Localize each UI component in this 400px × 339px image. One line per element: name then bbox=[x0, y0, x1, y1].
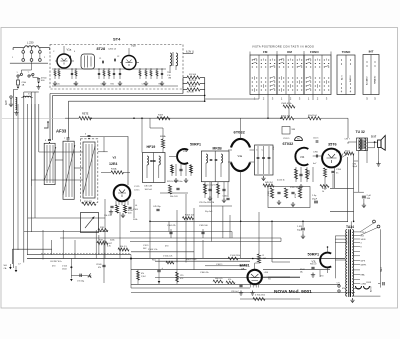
svg-text:8: 8 bbox=[361, 247, 362, 249]
contact dot bbox=[265, 59, 266, 60]
tube pin bbox=[255, 283, 257, 287]
terminal sel 3 bbox=[39, 59, 42, 62]
contact dot bbox=[297, 59, 298, 60]
resistor bbox=[166, 261, 174, 264]
contact dot bbox=[270, 66, 271, 67]
resistor R103 bbox=[183, 217, 194, 220]
svg-text:2 µF: 2 µF bbox=[367, 195, 372, 197]
junction bbox=[88, 138, 89, 139]
bus wire bottom main bbox=[27, 258, 345, 260]
wire vertical bbox=[34, 92, 36, 180]
contact dot bbox=[297, 81, 298, 82]
capacitor C2 bbox=[37, 79, 40, 80]
svg-text:R2 104: R2 104 bbox=[187, 91, 195, 93]
transformer T1 discriminator bbox=[81, 54, 95, 69]
wire bbox=[341, 154, 343, 159]
contact stroke bbox=[254, 59, 256, 61]
contact dot bbox=[261, 85, 262, 86]
wire bbox=[228, 161, 232, 163]
TA34 tap wire bbox=[353, 279, 360, 281]
wire bbox=[327, 267, 329, 273]
wire stub bbox=[12, 48, 14, 50]
wire vertical left of TA34 bbox=[334, 236, 336, 278]
bus wire 254 bbox=[27, 254, 131, 256]
wire bbox=[250, 161, 255, 163]
bus wire 238 bbox=[60, 237, 281, 239]
svg-text:C55 25n R33 1M: C55 25n R33 1M bbox=[199, 202, 214, 204]
svg-text:1 507: 1 507 bbox=[107, 243, 113, 245]
tick bbox=[276, 51, 278, 55]
svg-text:C6 2N7 47n: C6 2N7 47n bbox=[50, 261, 62, 263]
resistor R49 bbox=[320, 185, 329, 188]
contact dot bbox=[274, 81, 275, 82]
contact dot bbox=[350, 63, 351, 64]
contact dot bbox=[328, 81, 329, 82]
wire vertical bbox=[70, 259, 72, 279]
svg-text:R3 106: R3 106 bbox=[189, 86, 197, 88]
contact dot bbox=[301, 63, 302, 64]
contact dot bbox=[306, 66, 307, 67]
svg-text:R1 104: R1 104 bbox=[189, 74, 197, 76]
wire table drop bbox=[312, 95, 314, 101]
contact bbox=[306, 84, 310, 86]
svg-text:V4a: V4a bbox=[238, 154, 243, 158]
junction bbox=[271, 221, 273, 223]
bus wire AF bbox=[134, 117, 281, 119]
svg-text:WB: WB bbox=[292, 129, 296, 131]
wire pin bbox=[71, 60, 74, 62]
svg-text:C1: C1 bbox=[99, 58, 101, 60]
wire bbox=[31, 53, 33, 58]
junction bbox=[149, 221, 151, 223]
tube V1a electrodes bbox=[61, 58, 68, 65]
wire vertical bbox=[211, 182, 213, 242]
ground bbox=[208, 196, 212, 201]
wire bbox=[150, 69, 152, 79]
junction bbox=[103, 68, 104, 69]
contact dot bbox=[350, 87, 351, 88]
table column line bbox=[303, 55, 305, 95]
resistor R24 bbox=[169, 185, 172, 194]
wire bbox=[32, 76, 34, 78]
junction bbox=[374, 141, 376, 143]
HF19 capacitor bbox=[153, 160, 156, 161]
box power filter bbox=[268, 187, 310, 208]
wire bbox=[240, 134, 242, 139]
wire bbox=[250, 149, 255, 151]
svg-text:100 1n8: 100 1n8 bbox=[145, 189, 153, 191]
svg-text:C36 C38: C36 C38 bbox=[144, 186, 153, 188]
svg-text:INT: INT bbox=[369, 50, 374, 54]
contact dot bbox=[328, 63, 329, 64]
tube V5 electrodes bbox=[327, 154, 337, 163]
wire bbox=[240, 171, 242, 177]
wire bbox=[24, 91, 39, 93]
ground bbox=[301, 234, 305, 239]
junction bbox=[353, 221, 355, 223]
contact dot bbox=[274, 59, 275, 60]
resistor R2 bbox=[187, 82, 200, 85]
ground bbox=[291, 202, 295, 207]
svg-text:OM: OM bbox=[168, 78, 172, 80]
svg-text:C162 1: C162 1 bbox=[216, 264, 223, 266]
tube V2 12EA bbox=[114, 185, 131, 202]
svg-text:6,3V: 6,3V bbox=[186, 51, 191, 54]
contact dot bbox=[270, 77, 271, 78]
wire bbox=[24, 231, 108, 233]
junction bbox=[75, 68, 76, 69]
switch lever bbox=[19, 74, 21, 77]
HF19 divider bbox=[153, 153, 155, 183]
contact dot bbox=[297, 89, 298, 90]
svg-text:V1b: V1b bbox=[131, 44, 136, 48]
svg-text:R10A: R10A bbox=[111, 167, 117, 170]
ground bbox=[299, 184, 303, 189]
junction bbox=[204, 100, 206, 102]
ground bbox=[74, 81, 78, 86]
padder arrow bbox=[85, 217, 94, 228]
IF transformer MF2B bbox=[201, 151, 229, 182]
svg-text:1.5µ: 1.5µ bbox=[312, 195, 317, 197]
svg-text:C1A: C1A bbox=[22, 81, 27, 84]
ground bbox=[118, 81, 122, 86]
tube pin bbox=[124, 201, 126, 206]
svg-text:12E4: 12E4 bbox=[109, 162, 117, 166]
junction bbox=[49, 142, 50, 143]
wire bbox=[272, 261, 290, 263]
svg-text:V2: V2 bbox=[113, 156, 117, 160]
capacitor C1509 bbox=[102, 265, 105, 266]
terminal bbox=[338, 285, 340, 287]
svg-text:RETE: RETE bbox=[82, 113, 89, 116]
wire bbox=[200, 83, 205, 85]
wire bbox=[190, 164, 192, 176]
contact dot bbox=[310, 63, 311, 64]
wire bbox=[137, 270, 139, 285]
wire bbox=[294, 117, 308, 119]
junction bbox=[161, 68, 162, 69]
resistor R47 bbox=[284, 188, 287, 198]
contact dot bbox=[270, 59, 271, 60]
IF transformer HF19 bbox=[143, 153, 166, 183]
wire bbox=[374, 142, 376, 148]
wire bus inside box bbox=[52, 85, 178, 87]
trimmer capacitor bbox=[88, 135, 91, 136]
TA34 tap wire left bbox=[335, 242, 347, 244]
contact dot bbox=[328, 89, 329, 90]
wire bbox=[324, 177, 326, 190]
bus wire 2 bbox=[53, 94, 205, 96]
terminal output 2 bbox=[377, 225, 380, 228]
svg-text:C20: C20 bbox=[57, 84, 60, 86]
capacitor bbox=[268, 157, 271, 158]
resistor R43 bbox=[324, 168, 327, 177]
capacitor C70 bbox=[362, 196, 366, 198]
contact dot bbox=[310, 66, 311, 67]
junction bbox=[252, 258, 254, 260]
contact dot bbox=[261, 89, 262, 90]
tuning arrow bbox=[44, 147, 56, 181]
wire vertical ladder bbox=[34, 104, 36, 218]
svg-text:763: 763 bbox=[361, 235, 364, 237]
contact dot bbox=[270, 89, 271, 90]
switch box INT bbox=[363, 55, 379, 95]
ground speaker bbox=[376, 162, 380, 167]
shield coil box L4 bbox=[81, 139, 98, 203]
winding bbox=[87, 56, 89, 68]
TA34 tap wire bbox=[353, 287, 360, 289]
box padder bbox=[81, 213, 99, 233]
wire vertical bbox=[202, 240, 204, 258]
wire bbox=[321, 117, 348, 119]
contact dot bbox=[374, 65, 375, 66]
svg-text:AF33: AF33 bbox=[56, 129, 67, 134]
resistor R12 bbox=[124, 205, 127, 213]
wire bbox=[65, 117, 79, 119]
junction bbox=[113, 68, 114, 69]
wire bbox=[146, 165, 148, 178]
svg-text:C55 4: C55 4 bbox=[361, 232, 366, 234]
wire bbox=[171, 164, 173, 176]
resistor R14 bbox=[82, 202, 96, 205]
svg-text:TA34: TA34 bbox=[346, 225, 354, 229]
bus wire 277 bbox=[155, 277, 300, 279]
svg-text:C2: C2 bbox=[117, 56, 119, 58]
svg-text:470k: 470k bbox=[295, 194, 297, 198]
contact dot bbox=[283, 89, 284, 90]
bus wire 288 bbox=[131, 287, 250, 289]
svg-text:C1509: C1509 bbox=[96, 264, 102, 266]
wire bbox=[20, 70, 22, 73]
svg-text:COM5: COM5 bbox=[361, 284, 366, 286]
contact dot bbox=[252, 81, 253, 82]
wire bbox=[228, 149, 232, 151]
table column line bbox=[312, 55, 314, 95]
svg-text:C26: C26 bbox=[101, 84, 104, 86]
contact bbox=[297, 66, 301, 68]
svg-text:C% 50µ: C% 50µ bbox=[77, 281, 85, 283]
resistor R20A bbox=[161, 139, 164, 148]
switch contact bbox=[20, 73, 22, 75]
tick bbox=[330, 52, 332, 56]
contact dot bbox=[256, 66, 257, 67]
svg-text:56k C43: 56k C43 bbox=[170, 196, 178, 198]
svg-text:C206 14: C206 14 bbox=[108, 49, 117, 51]
svg-text:R23 1k C41 100n: R23 1k C41 100n bbox=[167, 181, 183, 183]
junction bbox=[90, 117, 92, 119]
dashed chassis line low bbox=[41, 252, 131, 254]
contact dot bbox=[288, 59, 289, 60]
resistor R25 bbox=[118, 248, 129, 251]
svg-text:4504 104: 4504 104 bbox=[308, 115, 318, 117]
resistor R22 bbox=[190, 165, 193, 173]
speaker LS bbox=[378, 140, 381, 148]
wire bbox=[204, 182, 206, 198]
connector arrow bbox=[70, 279, 73, 281]
resistor bbox=[226, 281, 235, 284]
wire bbox=[21, 69, 31, 71]
trimmer capacitor bbox=[48, 139, 51, 140]
coil box L2 bbox=[44, 143, 55, 184]
wire bbox=[162, 148, 164, 153]
svg-text:146 B: 146 B bbox=[361, 239, 367, 241]
switch table keyboard bbox=[250, 55, 331, 95]
wire vertical bbox=[271, 221, 273, 262]
coil line bbox=[46, 145, 48, 183]
svg-text:25µF: 25µF bbox=[312, 198, 318, 200]
TA34 tap wire bbox=[353, 283, 360, 285]
junction bbox=[267, 117, 269, 119]
wire bbox=[227, 182, 229, 197]
wire bbox=[263, 146, 265, 174]
wire stub bbox=[49, 48, 51, 50]
capacitor C69 bbox=[331, 171, 334, 172]
svg-text:1,5k2: 1,5k2 bbox=[141, 276, 146, 278]
contact dot bbox=[301, 81, 302, 82]
contact dot bbox=[350, 59, 351, 60]
contact dot bbox=[315, 66, 316, 67]
wire grid feed bbox=[80, 137, 128, 186]
TU32 secondary bbox=[365, 139, 367, 151]
wire bbox=[257, 146, 259, 174]
svg-text:C105 100: C105 100 bbox=[199, 225, 209, 227]
contact dot bbox=[274, 77, 275, 78]
wire vertical bbox=[222, 206, 224, 238]
svg-text:ALTOP: ALTOP bbox=[370, 285, 373, 292]
svg-text:EM81: EM81 bbox=[240, 263, 251, 268]
wire bbox=[108, 69, 110, 79]
contact dot bbox=[256, 81, 257, 82]
wire bbox=[209, 182, 211, 198]
TA34 core line bbox=[348, 229, 350, 297]
coil hatch bbox=[15, 105, 18, 106]
svg-text:R2 105: R2 105 bbox=[189, 80, 197, 82]
svg-text:PU: PU bbox=[297, 138, 300, 140]
wire bbox=[63, 46, 65, 47]
ground bbox=[36, 85, 40, 90]
contact dot bbox=[306, 77, 307, 78]
contact dot bbox=[283, 81, 284, 82]
contact dot bbox=[292, 89, 293, 90]
wire mains left bbox=[13, 47, 24, 49]
wire bbox=[103, 137, 105, 152]
shield box ST4 FM unit bbox=[50, 45, 183, 90]
contact dot bbox=[315, 59, 316, 60]
capacitor C53 bbox=[208, 189, 211, 190]
svg-text:1 500 220k: 1 500 220k bbox=[230, 255, 240, 257]
capacitor C104 bbox=[169, 232, 172, 233]
contact dot bbox=[283, 85, 284, 86]
wire bbox=[348, 141, 357, 143]
contact dot bbox=[315, 89, 316, 90]
wire pin top bbox=[63, 47, 65, 54]
wire bbox=[354, 191, 364, 193]
wire vertical bbox=[67, 101, 69, 138]
svg-text:6T032: 6T032 bbox=[234, 130, 246, 135]
contact bbox=[252, 59, 256, 61]
svg-text:CUFF: CUFF bbox=[366, 282, 372, 284]
junction bbox=[133, 117, 135, 119]
contact dot bbox=[274, 85, 275, 86]
HF19 coil bbox=[159, 156, 161, 165]
contact dot bbox=[315, 85, 316, 86]
wire bbox=[156, 69, 158, 79]
wire bbox=[39, 53, 41, 58]
tube V3a 50RP1 bbox=[177, 149, 188, 164]
wire bbox=[170, 229, 172, 238]
resistor bbox=[103, 71, 105, 77]
contact dot bbox=[324, 77, 325, 78]
contact dot bbox=[297, 63, 298, 64]
bus wire 269b bbox=[263, 269, 330, 271]
contact dot bbox=[279, 77, 280, 78]
svg-text:L 230: L 230 bbox=[27, 41, 34, 45]
svg-text:VISTA POSTERIORE CON TASTI IN: VISTA POSTERIORE CON TASTI IN MODO bbox=[252, 45, 314, 49]
tube V1b electrodes bbox=[126, 60, 133, 67]
ground bbox=[261, 176, 265, 181]
svg-text:1M: 1M bbox=[263, 258, 266, 260]
TA34 tap wire left bbox=[335, 238, 347, 240]
wire bbox=[341, 154, 348, 159]
capacitor bbox=[161, 73, 163, 74]
contact dot bbox=[265, 81, 266, 82]
svg-text:U5: U5 bbox=[241, 267, 245, 271]
bus wire 266 bbox=[205, 265, 247, 267]
resistor C509 bbox=[283, 105, 295, 108]
wire bbox=[378, 148, 380, 162]
bus wire bbox=[130, 231, 232, 233]
contact dot bbox=[301, 66, 302, 67]
wire pin bbox=[136, 62, 139, 64]
contact stroke bbox=[326, 59, 328, 61]
switch contact bbox=[28, 75, 30, 77]
contact dot bbox=[310, 77, 311, 78]
wire bbox=[200, 89, 205, 91]
svg-text:MF2B: MF2B bbox=[213, 147, 223, 151]
terminal bbox=[338, 290, 340, 292]
tube pin bbox=[115, 201, 117, 206]
wire bbox=[145, 69, 147, 79]
svg-text:FONO: FONO bbox=[310, 50, 319, 54]
ground bbox=[109, 210, 113, 215]
contact dot bbox=[341, 63, 342, 64]
svg-text:C93 7: C93 7 bbox=[345, 139, 351, 141]
wire mains down bbox=[14, 90, 19, 97]
TA34 core line bbox=[350, 229, 352, 297]
contact dot bbox=[324, 85, 325, 86]
contact dot bbox=[328, 85, 329, 86]
resistor bbox=[150, 71, 152, 77]
junction bbox=[141, 117, 143, 119]
contact dot bbox=[315, 77, 316, 78]
contact dot bbox=[341, 59, 342, 60]
INT divider bbox=[370, 55, 372, 95]
contact dot bbox=[261, 59, 262, 60]
wire bbox=[158, 165, 160, 178]
wire bbox=[71, 274, 87, 276]
resistor bbox=[156, 71, 158, 77]
contact dot bbox=[279, 63, 280, 64]
contact dot bbox=[256, 89, 257, 90]
svg-text:C12:9: C12:9 bbox=[143, 245, 149, 247]
terminal sel 1 bbox=[22, 59, 25, 62]
capacitor C82 bbox=[314, 201, 318, 203]
capacitor C67 bbox=[299, 174, 302, 175]
bus wire 261 bbox=[155, 260, 250, 262]
contact dot bbox=[288, 63, 289, 64]
capacitor bbox=[113, 73, 115, 74]
contact dot bbox=[261, 63, 262, 64]
